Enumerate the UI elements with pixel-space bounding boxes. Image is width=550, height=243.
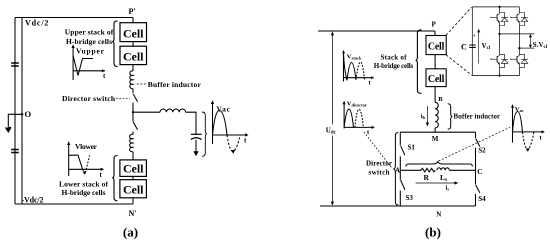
cell box 4 (a)	[120, 180, 146, 198]
svg-text:B: B	[438, 96, 443, 103]
load inductor Ls	[437, 168, 449, 171]
A-C line right	[449, 169, 475, 171]
svg-text:Vstack: Vstack	[347, 53, 362, 60]
wire P' drop	[132, 18, 134, 23]
svg-text:R: R	[424, 173, 430, 182]
inset capacitor C	[469, 45, 476, 47]
svg-text:H-bridge cells: H-bridge cells	[374, 62, 414, 70]
Vac axes (b)	[511, 104, 545, 142]
svg-text:t: t	[369, 79, 372, 86]
svg-text:Buffer inductor: Buffer inductor	[454, 114, 501, 121]
svg-text:-Vdc/2: -Vdc/2	[22, 196, 44, 205]
buffer inductor La	[130, 71, 133, 89]
director switch S upper (a)	[133, 89, 138, 113]
svg-text:t: t	[244, 137, 247, 145]
wire top rail (a)	[15, 17, 133, 19]
wire cap to terminal (a)	[195, 140, 197, 152]
svg-text:Vcl: Vcl	[482, 42, 491, 51]
Vstack plot axes	[342, 50, 374, 86]
inset bottom line	[472, 75, 519, 77]
svg-text:Director switch: Director switch	[62, 94, 116, 103]
svg-text:C: C	[477, 168, 482, 176]
Vlower notch arrow	[83, 171, 87, 175]
wire bottom rail (a)	[15, 203, 133, 205]
svg-text:C: C	[461, 43, 467, 52]
svg-text:Cell: Cell	[428, 42, 445, 53]
svg-text:S.Vcl: S.Vcl	[533, 41, 548, 50]
brace buffer (b)	[448, 104, 453, 129]
output junction wire (a)	[132, 111, 160, 113]
svg-text:S3: S3	[406, 194, 414, 202]
Vac axes (a)	[211, 101, 249, 145]
brace stack (b)	[416, 30, 422, 94]
svg-text:P′: P′	[129, 7, 136, 16]
director box top edge	[400, 131, 475, 133]
Vupper plot axes	[71, 45, 106, 80]
wire between cells (b)	[434, 55, 436, 69]
svg-text:Buffer inductor: Buffer inductor	[148, 80, 202, 89]
svg-text:+: +	[473, 34, 476, 39]
cell box 3 (a)	[120, 160, 146, 177]
director switch leader dashes (a)	[116, 97, 130, 99]
svg-text:Cell: Cell	[123, 183, 144, 197]
SVcl double arrow	[529, 34, 532, 48]
cell box 2 (b)	[426, 69, 446, 87]
inset top line	[472, 6, 519, 8]
Udc measurement arrow	[331, 31, 334, 205]
inset right leg top wire	[518, 7, 520, 12]
igbt-diode Q4	[511, 54, 528, 67]
wire left outer rail (a)	[14, 18, 16, 205]
Vcl arrow (inset)	[477, 29, 480, 64]
brace director (b)	[393, 133, 398, 206]
Vupper waveform	[73, 56, 93, 76]
current ib arrow	[426, 106, 429, 127]
svg-text:Cell: Cell	[123, 162, 144, 176]
igbt-diode Q1	[491, 12, 508, 25]
ground	[5, 127, 12, 134]
dashed zoom line upper	[446, 7, 472, 35]
svg-text:Director: Director	[366, 160, 392, 168]
brace upper stack	[112, 21, 117, 67]
svg-text:ib: ib	[421, 113, 426, 120]
inset right leg mid wire	[518, 26, 520, 54]
junction dot bottom	[498, 75, 500, 77]
wire inductor to lower cells (a)	[132, 152, 134, 160]
cell box 1 (a)	[120, 23, 147, 42]
inset right leg bottom wire	[518, 67, 520, 75]
Vac waveform solid lobe (b)	[513, 112, 523, 132]
inset left leg bottom wire	[499, 67, 501, 75]
capacitor C1 (upper DC-link)	[11, 63, 19, 66]
lower arm inductor (a)	[130, 134, 133, 152]
svg-text:Upper stack of: Upper stack of	[65, 28, 114, 37]
Vac waveform solid lobe (a)	[213, 110, 228, 135]
svg-text:is: is	[446, 184, 450, 191]
svg-text:Stack of: Stack of	[381, 53, 408, 61]
inset left leg top wire	[499, 7, 501, 12]
Vstack waveform solid	[344, 54, 357, 81]
Vlower plot axes	[67, 142, 104, 179]
inset mid line lower	[519, 47, 534, 49]
svg-text:Vdirector: Vdirector	[347, 100, 367, 107]
svg-text:t: t	[540, 134, 543, 141]
wire between cells (a upper)	[132, 42, 134, 47]
dashed zoom line lower	[446, 55, 472, 76]
wire left inner rail (a)	[21, 18, 23, 205]
svg-text:Cell: Cell	[123, 50, 144, 64]
capacitor C2 (lower DC-link)	[11, 150, 19, 153]
Vlower waveform dashed notch	[83, 156, 90, 173]
svg-text:O: O	[25, 109, 32, 119]
Vlower waveform solid	[69, 155, 83, 169]
svg-text:(a): (a)	[123, 225, 138, 240]
junction dot mid-right	[518, 47, 520, 49]
Vdirector waveform solid hump	[344, 109, 353, 127]
wire top rail (b)	[318, 30, 435, 32]
filter capacitor (a)	[191, 134, 202, 139]
svg-text:Vdc/2: Vdc/2	[25, 19, 48, 28]
director box right edge with S2 S4	[476, 132, 480, 206]
svg-text:H-bridge cells: H-bridge cells	[62, 188, 106, 197]
inset left leg mid wire	[499, 26, 501, 54]
wire cell2 to buffer inductor (a)	[132, 65, 134, 71]
svg-text:t: t	[367, 129, 370, 136]
Vac dashed lobe arrow (a)	[231, 150, 235, 154]
svg-text:Ls: Ls	[440, 173, 447, 183]
svg-text:(b): (b)	[425, 225, 441, 240]
Vac waveform dashed lobe (b)	[523, 132, 534, 149]
overbrace load branch	[406, 162, 473, 167]
igbt-diode Q2	[511, 12, 528, 25]
svg-text:M: M	[432, 135, 439, 143]
inset mid line upper	[500, 33, 535, 35]
svg-text:N′: N′	[129, 209, 137, 218]
wire cell2 to B (b)	[434, 87, 436, 103]
junction dot mid-left	[498, 33, 500, 35]
Vac waveform dashed lobe (a)	[227, 135, 240, 151]
wire inductor to cap corner (a)	[186, 112, 196, 134]
Vdirector waveform dashed hump	[355, 109, 364, 127]
svg-text:Cell: Cell	[428, 74, 445, 85]
buffer inductor (b)	[435, 102, 438, 128]
wire P drop (b)	[434, 31, 436, 36]
wire bottom rail (b)	[320, 205, 476, 207]
current is arrow	[416, 181, 459, 184]
wire cell4 to bottom rail (a)	[132, 198, 134, 204]
svg-text:Vupper: Vupper	[76, 47, 105, 56]
svg-text:t: t	[100, 171, 103, 179]
director switch S lower (a)	[133, 112, 138, 134]
A-C line left	[400, 169, 421, 171]
svg-text:S1: S1	[408, 143, 416, 151]
svg-text:Vlower: Vlower	[75, 142, 98, 151]
load resistor R	[421, 168, 435, 172]
svg-text:switch: switch	[369, 168, 390, 176]
wire between cells (a lower)	[132, 176, 134, 179]
igbt-diode Q3	[491, 54, 508, 67]
terminal arrow (a)	[193, 151, 198, 156]
filter inductor horizontal (a)	[160, 109, 186, 112]
svg-text:N: N	[436, 210, 441, 218]
wire inductor to M (b)	[434, 128, 436, 132]
svg-text:Lower stack of: Lower stack of	[59, 179, 109, 188]
inset left vertical	[471, 7, 473, 76]
Vstack waveform dashed	[356, 62, 365, 80]
svg-text:H-bridge cells: H-bridge cells	[66, 37, 112, 46]
brace output (a)	[202, 112, 207, 156]
Vac dashed arrow (b)	[526, 148, 530, 152]
node O wire	[8, 113, 23, 127]
svg-text:Cell: Cell	[123, 27, 144, 41]
svg-text:t: t	[103, 72, 106, 80]
Vdirector leader dashes	[364, 132, 392, 168]
svg-text:P: P	[432, 21, 437, 29]
cell box 2 (a)	[120, 46, 147, 64]
svg-text:Udc: Udc	[326, 127, 337, 136]
svg-text:Vac: Vac	[217, 105, 231, 114]
svg-text:S4: S4	[478, 195, 486, 203]
brace lower stack	[112, 156, 117, 201]
dashed pointer overbrace to Vac	[439, 127, 511, 161]
Vdirector plot axes	[343, 101, 375, 136]
director box left edge with S1 S3	[400, 132, 405, 206]
cell box 1 (b)	[426, 36, 446, 55]
svg-text:S2: S2	[478, 146, 486, 154]
junction dot top	[498, 6, 500, 8]
buffer inductor leader dashes	[137, 83, 146, 85]
